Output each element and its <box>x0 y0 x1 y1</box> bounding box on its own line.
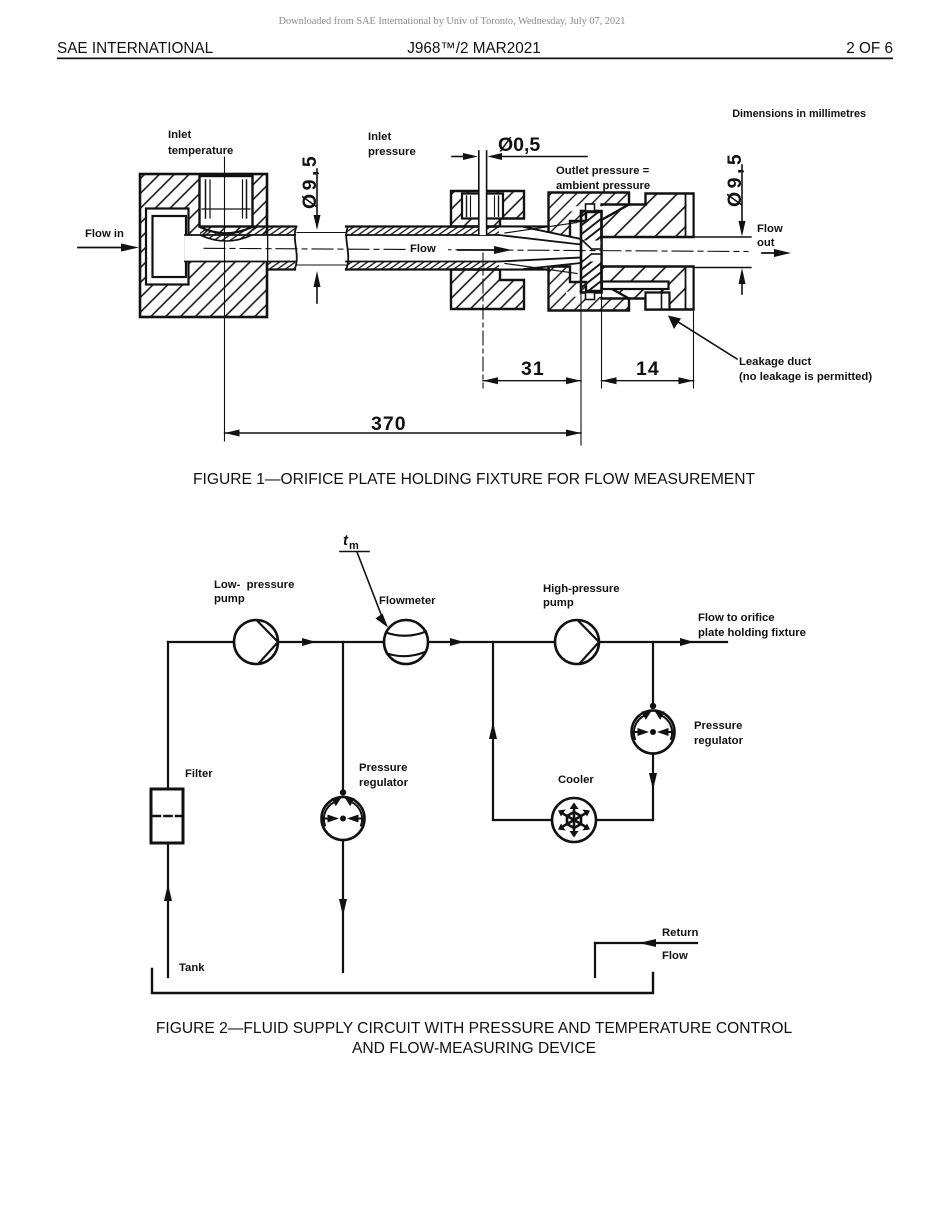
svg-text:2 OF 6: 2 OF 6 <box>846 40 893 57</box>
orifice hole detail <box>583 241 601 262</box>
pressure regulator (left) <box>322 789 365 840</box>
wire: cooler line <box>493 819 552 821</box>
cooler <box>552 798 596 842</box>
svg-text:Tank: Tank <box>179 962 205 974</box>
orifice plate <box>581 211 602 293</box>
svg-text:out: out <box>757 237 775 249</box>
svg-text:temperature: temperature <box>168 145 233 157</box>
svg-text:Pressure: Pressure <box>694 720 742 732</box>
flow out arrow <box>762 252 777 254</box>
pipe break symbol <box>295 227 297 270</box>
cone upper white wedge <box>499 228 581 245</box>
inlet socket cavity <box>146 209 189 285</box>
wire: regulator to cooler corner <box>652 754 654 821</box>
tube top wall (hatched) <box>253 227 295 235</box>
inlet bore through block <box>185 235 267 262</box>
svg-text:Inlet: Inlet <box>368 131 391 143</box>
svg-text:Outlet pressure =: Outlet pressure = <box>556 165 650 177</box>
svg-text:Return: Return <box>662 927 698 939</box>
svg-text:(no leakage is permitted): (no leakage is permitted) <box>739 371 872 383</box>
horizontal centerline <box>204 248 748 251</box>
svg-text:Dimensions in millimetres: Dimensions in millimetres <box>732 108 866 120</box>
svg-text:High-pressure: High-pressure <box>543 583 620 595</box>
svg-text:plate holding fixture: plate holding fixture <box>698 627 806 639</box>
svg-text:J968™/2 MAR2021: J968™/2 MAR2021 <box>407 40 541 57</box>
clamp flange lower <box>549 267 630 311</box>
flow arrow (center) <box>458 249 497 251</box>
svg-text:m: m <box>349 540 359 552</box>
svg-text:Inlet: Inlet <box>168 129 191 141</box>
svg-text:Low- pressure: Low- pressure <box>214 579 294 591</box>
wire: regulator discharge down <box>342 840 344 972</box>
wire: cooler branch riser <box>492 642 494 820</box>
wire: branch to left pressure regulator <box>342 642 344 789</box>
svg-text:Flow to orifice: Flow to orifice <box>698 612 775 624</box>
svg-text:Downloaded from SAE Internatio: Downloaded from SAE International by Uni… <box>279 16 626 27</box>
extension line: orifice right face <box>601 293 603 389</box>
svg-text:AND FLOW-MEASURING DEVICE: AND FLOW-MEASURING DEVICE <box>352 1040 596 1057</box>
inlet temperature port <box>200 176 253 227</box>
extension line: temperature port centerline <box>224 157 226 441</box>
svg-text:Flow: Flow <box>410 243 436 255</box>
wire: right regulator branch <box>652 642 654 702</box>
outlet body lower <box>602 267 694 310</box>
svg-text:Flow in: Flow in <box>85 228 124 240</box>
high-pressure pump <box>555 620 599 664</box>
fitting threaded port <box>462 194 503 219</box>
svg-text:Cooler: Cooler <box>558 774 594 786</box>
svg-text:Flowmeter: Flowmeter <box>379 595 436 607</box>
outlet body upper <box>602 194 694 238</box>
flow in arrow <box>78 247 124 249</box>
wire: main supply line <box>168 641 234 643</box>
svg-text:14: 14 <box>636 358 660 380</box>
svg-text:Leakage duct: Leakage duct <box>739 356 811 368</box>
svg-text:Flow: Flow <box>662 950 688 962</box>
filter <box>151 789 183 843</box>
wire: left riser (tank-filter-pump) <box>167 642 169 789</box>
low-pressure pump <box>234 620 278 664</box>
svg-text:regulator: regulator <box>694 735 744 747</box>
extension line: body right face <box>693 312 695 389</box>
svg-text:FIGURE 1—ORIFICE PLATE HOLDING: FIGURE 1—ORIFICE PLATE HOLDING FIXTURE F… <box>193 471 755 488</box>
inlet pressure fitting upper block <box>451 191 524 227</box>
label: flow <box>406 240 448 255</box>
flowmeter <box>384 620 428 664</box>
leakage duct slot <box>602 282 669 290</box>
header rule <box>57 58 893 60</box>
svg-text:FIGURE 2—FLUID SUPPLY CIRCUIT: FIGURE 2—FLUID SUPPLY CIRCUIT WITH PRESS… <box>156 1020 793 1037</box>
inlet pressure fitting lower block <box>451 270 524 310</box>
wire: return flow <box>595 942 697 944</box>
leakage duct exit <box>646 293 670 310</box>
svg-text:Flow: Flow <box>757 223 783 235</box>
cone lower white wedge <box>499 258 581 269</box>
svg-text:SAE INTERNATIONAL: SAE INTERNATIONAL <box>57 40 213 57</box>
extension line: pressure tap centerline <box>482 253 484 388</box>
pressure tap bore <box>479 151 487 235</box>
diffuser cone lines <box>499 235 581 245</box>
svg-text:pump: pump <box>543 597 574 609</box>
pressure regulator (right) <box>632 703 675 754</box>
svg-text:Filter: Filter <box>185 768 213 780</box>
svg-text:pressure: pressure <box>368 146 416 158</box>
svg-text:pump: pump <box>214 593 245 605</box>
tank <box>152 969 653 993</box>
outlet tube stub <box>694 236 752 238</box>
tube bottom wall (hatched) <box>267 262 295 270</box>
svg-text:31: 31 <box>521 358 545 380</box>
clamp flange upper <box>549 193 630 237</box>
extension line: orifice left face <box>580 293 582 446</box>
left fixture block (inlet temperature block) <box>140 174 267 317</box>
body right face double line <box>687 196 693 236</box>
port funnel into tube <box>200 227 252 241</box>
svg-text:regulator: regulator <box>359 777 409 789</box>
svg-text:Pressure: Pressure <box>359 762 407 774</box>
leakage leader arrow <box>675 320 737 359</box>
svg-text:370: 370 <box>371 413 407 435</box>
svg-text:Ø0,5: Ø0,5 <box>498 134 540 156</box>
svg-text:ambient pressure: ambient pressure <box>556 180 650 192</box>
